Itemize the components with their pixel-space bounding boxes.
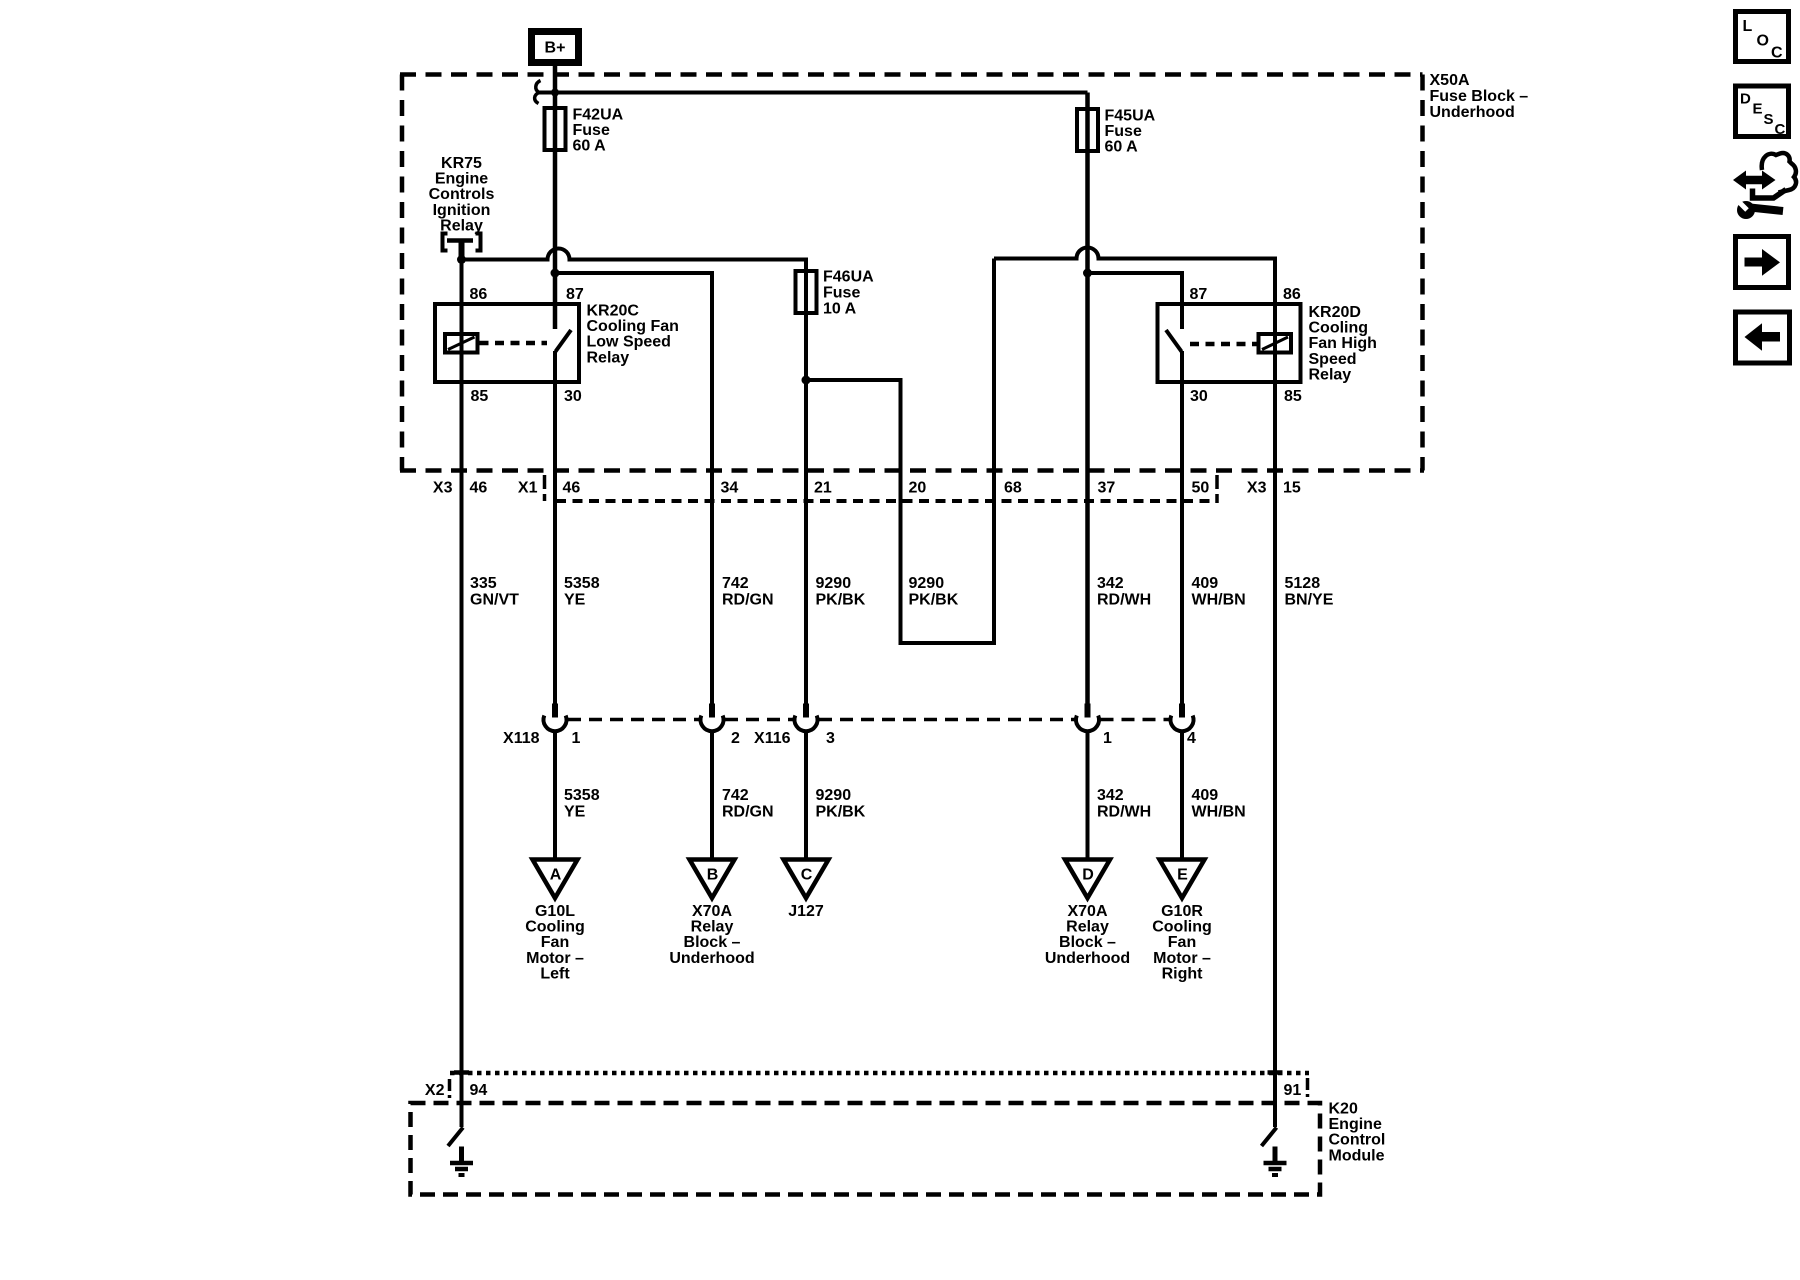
- svg-text:O: O: [1757, 33, 1769, 50]
- svg-text:Cooling Fan: Cooling Fan: [587, 318, 679, 335]
- power feed B+: [532, 32, 579, 63]
- wire B+ vertical feed to F42UA and KR20C 87 (upper): [553, 62, 558, 329]
- junction KR75: [457, 255, 466, 264]
- junction below F46UA: [802, 376, 811, 385]
- svg-text:X1: X1: [518, 480, 538, 497]
- svg-text:X2: X2: [425, 1082, 445, 1099]
- relay KR20D switch blade: [1166, 330, 1182, 352]
- svg-text:30: 30: [564, 388, 582, 405]
- svg-text:Fuse Block –: Fuse Block –: [1430, 88, 1529, 105]
- ground (ECM left): [450, 1147, 473, 1176]
- splice hook at bus left end: [535, 81, 541, 104]
- connector dashed links: [568, 718, 1169, 722]
- svg-text:86: 86: [1283, 286, 1301, 303]
- svg-text:C: C: [1775, 121, 1786, 138]
- icon next arrow button: [1736, 237, 1789, 288]
- svg-text:Left: Left: [540, 965, 570, 982]
- svg-text:Speed: Speed: [1309, 351, 1357, 368]
- svg-text:46: 46: [563, 480, 581, 497]
- icon schematic/tools: [1733, 153, 1796, 219]
- wire F45UA down to connector X116 pin 1: [1085, 93, 1090, 705]
- svg-text:86: 86: [470, 286, 488, 303]
- wire B+ horizontal bus to F45UA: [539, 91, 1088, 95]
- svg-text:Cooling: Cooling: [525, 919, 585, 936]
- svg-text:Relay: Relay: [440, 217, 483, 234]
- relay KR20C box: [435, 304, 579, 382]
- wire value label 9290 PK/BK (21): [816, 575, 866, 609]
- fuse block box X50A (dashed): [400, 75, 1424, 471]
- wire KR20D 85 coil return (5128 BN/YE) down to ECM: [1273, 334, 1277, 1127]
- svg-text:409: 409: [1192, 575, 1219, 592]
- node X50A label: [1430, 72, 1529, 121]
- svg-text:9290: 9290: [909, 575, 945, 592]
- svg-text:X3: X3: [433, 480, 453, 497]
- relay KR75 terminal symbol: [443, 234, 481, 257]
- svg-text:YE: YE: [564, 804, 586, 821]
- node G10L label: [525, 903, 585, 982]
- svg-text:KR75: KR75: [441, 155, 482, 172]
- svg-text:742: 742: [722, 787, 749, 804]
- wire KR20D 30 output (409 WH/BN) down to connector X116 pin 4: [1180, 351, 1184, 704]
- svg-text:KR20D: KR20D: [1309, 304, 1361, 321]
- node X70A label (B): [669, 903, 754, 967]
- svg-text:Underhood: Underhood: [1430, 104, 1515, 121]
- svg-text:91: 91: [1284, 1082, 1302, 1099]
- svg-text:J127: J127: [788, 903, 824, 920]
- connector X1 dashed line: [556, 499, 1216, 503]
- icon LOC button: [1736, 12, 1789, 62]
- relay KR20C label: [587, 303, 679, 367]
- svg-text:409: 409: [1192, 787, 1219, 804]
- ground (ECM right): [1264, 1147, 1287, 1176]
- wire branch to KR20D 87: [1088, 273, 1183, 329]
- svg-text:46: 46: [470, 480, 488, 497]
- wire value label 9290 PK/BK (20-68 loop): [909, 575, 959, 609]
- wire KR20C 85 coil return (335 GN/VT) down to ECM: [460, 260, 464, 1128]
- wire value label 342 RD/WH: [1097, 575, 1151, 609]
- wire value label 5358 YE: [564, 575, 600, 609]
- svg-text:X50A: X50A: [1430, 72, 1470, 89]
- svg-text:F46UA: F46UA: [823, 269, 874, 286]
- svg-text:Control: Control: [1329, 1132, 1386, 1149]
- relay KR20C switch blade: [556, 330, 572, 352]
- svg-text:Motor –: Motor –: [1153, 950, 1211, 967]
- svg-text:Cooling: Cooling: [1152, 919, 1212, 936]
- svg-text:68: 68: [1004, 480, 1022, 497]
- svg-text:342: 342: [1097, 787, 1124, 804]
- junction at B+ bus: [551, 89, 559, 97]
- wire value label 5358 YE (lower): [564, 787, 600, 821]
- connector X1 left tick: [543, 475, 547, 501]
- destination arrow D: [1065, 860, 1110, 899]
- svg-text:WH/BN: WH/BN: [1192, 592, 1246, 609]
- connector X2 tick at pin 94: [454, 1070, 469, 1075]
- svg-text:Engine: Engine: [1329, 1116, 1382, 1133]
- svg-text:PK/BK: PK/BK: [816, 804, 866, 821]
- svg-text:G10L: G10L: [535, 903, 575, 920]
- svg-text:D: D: [1740, 91, 1751, 108]
- svg-text:3: 3: [826, 730, 835, 747]
- wire value label 409 WH/BN: [1192, 575, 1246, 609]
- connector X118 pin 1: [544, 704, 567, 732]
- svg-text:YE: YE: [564, 592, 586, 609]
- svg-text:X70A: X70A: [1067, 903, 1107, 920]
- fuse F42UA: [545, 107, 624, 155]
- node X70A label (D): [1045, 903, 1130, 967]
- connector X1 right tick / X3: [1215, 475, 1219, 503]
- svg-text:21: 21: [814, 480, 832, 497]
- svg-text:87: 87: [566, 286, 584, 303]
- wire 742 RD/GN lower: [710, 730, 714, 860]
- svg-text:50: 50: [1192, 480, 1210, 497]
- svg-text:Relay: Relay: [587, 349, 630, 366]
- wire value label 335 GN/VT: [470, 575, 519, 609]
- svg-text:Fuse: Fuse: [823, 285, 860, 302]
- svg-text:Ignition: Ignition: [433, 202, 491, 219]
- svg-text:D: D: [1082, 867, 1094, 884]
- wire KR20C 30 output (5358 YE) down to connector X118 pin 1: [553, 351, 557, 704]
- junction on B+ wire: [551, 269, 560, 278]
- svg-text:RD/WH: RD/WH: [1097, 804, 1151, 821]
- svg-text:K20: K20: [1329, 1101, 1358, 1118]
- svg-text:PK/BK: PK/BK: [816, 592, 866, 609]
- svg-text:WH/BN: WH/BN: [1192, 804, 1246, 821]
- svg-text:94: 94: [470, 1082, 488, 1099]
- connector X118 pin 2: [701, 704, 724, 732]
- ECM right switch blade: [1262, 1128, 1277, 1147]
- wire terminal 68 to KR20D 86 (hop over F45UA wire): [994, 248, 1275, 335]
- svg-text:5358: 5358: [564, 575, 600, 592]
- ECM left switch blade: [448, 1128, 463, 1147]
- svg-text:F45UA: F45UA: [1105, 108, 1156, 125]
- relay KR20C coil: [445, 334, 478, 353]
- destination arrow A: [533, 860, 578, 899]
- svg-text:A: A: [550, 867, 562, 884]
- svg-text:Underhood: Underhood: [1045, 950, 1130, 967]
- svg-text:L: L: [1743, 18, 1753, 35]
- wire 5358 YE lower: [553, 730, 557, 860]
- svg-text:Underhood: Underhood: [669, 950, 754, 967]
- svg-text:335: 335: [470, 575, 497, 592]
- svg-text:Block –: Block –: [684, 934, 741, 951]
- relay KR20D coil: [1259, 334, 1292, 353]
- connector X2 right tick: [1306, 1078, 1310, 1097]
- wire value label 742 RD/GN (lower): [722, 787, 774, 821]
- svg-text:37: 37: [1098, 480, 1116, 497]
- relay KR20C linkage (dashed): [480, 341, 548, 346]
- svg-text:Block –: Block –: [1059, 934, 1116, 951]
- wire value label 5128 BN/YE: [1285, 575, 1334, 609]
- svg-text:BN/YE: BN/YE: [1285, 592, 1334, 609]
- svg-text:4: 4: [1187, 730, 1196, 747]
- connector X116 pin 4: [1171, 704, 1194, 732]
- svg-text:PK/BK: PK/BK: [909, 592, 959, 609]
- svg-text:X116: X116: [754, 730, 791, 747]
- svg-text:Relay: Relay: [1066, 919, 1109, 936]
- svg-text:Motor –: Motor –: [526, 950, 584, 967]
- svg-text:5128: 5128: [1285, 575, 1321, 592]
- svg-text:9290: 9290: [816, 787, 852, 804]
- svg-text:30: 30: [1190, 388, 1208, 405]
- svg-text:B: B: [707, 867, 719, 884]
- wire value label 342 RD/WH (lower): [1097, 787, 1151, 821]
- svg-text:20: 20: [909, 480, 927, 497]
- fuse F46UA: [796, 269, 875, 318]
- svg-text:87: 87: [1190, 286, 1208, 303]
- svg-text:C: C: [801, 867, 813, 884]
- svg-text:342: 342: [1097, 575, 1124, 592]
- wire value label 9290 PK/BK (lower): [816, 787, 866, 821]
- svg-text:Fan: Fan: [1168, 934, 1196, 951]
- svg-text:1: 1: [1103, 730, 1112, 747]
- svg-text:Module: Module: [1329, 1147, 1385, 1164]
- svg-text:G10R: G10R: [1161, 903, 1203, 920]
- svg-text:RD/GN: RD/GN: [722, 592, 774, 609]
- icon DESC button: [1736, 86, 1789, 138]
- wire 342 RD/WH lower: [1086, 730, 1090, 860]
- wire value label 742 RD/GN: [722, 575, 774, 609]
- svg-text:B+: B+: [545, 40, 566, 57]
- svg-text:Cooling: Cooling: [1309, 320, 1369, 337]
- relay KR20D box: [1158, 304, 1301, 382]
- svg-text:Fuse: Fuse: [1105, 123, 1142, 140]
- svg-text:15: 15: [1283, 480, 1301, 497]
- svg-text:Controls: Controls: [429, 186, 495, 203]
- connector X2 tick at pin 91: [1268, 1070, 1283, 1075]
- svg-text:C: C: [1771, 45, 1783, 62]
- svg-text:9290: 9290: [816, 575, 852, 592]
- svg-text:E: E: [1177, 867, 1188, 884]
- wire 9290 PK/BK lower: [804, 730, 808, 860]
- svg-text:S: S: [1764, 111, 1774, 128]
- wire branch 742 from B+ wire: [555, 273, 712, 704]
- wire 409 WH/BN lower: [1180, 730, 1184, 860]
- svg-text:GN/VT: GN/VT: [470, 592, 519, 609]
- svg-text:10 A: 10 A: [823, 301, 857, 318]
- svg-text:Fuse: Fuse: [573, 122, 610, 139]
- icon back arrow button: [1736, 312, 1790, 363]
- svg-text:Low Speed: Low Speed: [587, 334, 671, 351]
- wire KR75 to F46UA (with hop over B+ wire): [462, 249, 807, 705]
- svg-text:X118: X118: [503, 730, 540, 747]
- svg-text:60 A: 60 A: [1105, 139, 1139, 156]
- svg-text:Engine: Engine: [435, 171, 488, 188]
- svg-text:5358: 5358: [564, 787, 600, 804]
- svg-text:742: 742: [722, 575, 749, 592]
- svg-text:85: 85: [471, 388, 489, 405]
- svg-text:34: 34: [721, 480, 739, 497]
- junction on F45UA wire: [1083, 269, 1092, 278]
- relay KR20D linkage (dashed): [1190, 342, 1259, 347]
- svg-text:E: E: [1753, 101, 1763, 118]
- fuse F45UA: [1077, 108, 1156, 156]
- wire F46UA branch to terminal 20 loop: [806, 259, 994, 644]
- svg-text:60 A: 60 A: [573, 138, 607, 155]
- svg-text:2: 2: [731, 730, 740, 747]
- svg-text:F42UA: F42UA: [573, 107, 624, 124]
- connector X116 pin 3: [795, 704, 818, 732]
- destination arrow E: [1160, 860, 1205, 899]
- svg-text:KR20C: KR20C: [587, 303, 640, 320]
- connector X2 dotted line: [450, 1071, 1309, 1076]
- ECM K20 box (dashed): [411, 1103, 1321, 1195]
- wire value label 409 WH/BN (lower): [1192, 787, 1246, 821]
- connector X116 pin 1: [1076, 704, 1099, 732]
- svg-text:1: 1: [572, 730, 581, 747]
- destination arrow B: [690, 860, 735, 899]
- svg-text:Fan: Fan: [541, 934, 569, 951]
- node G10R label: [1152, 903, 1212, 982]
- node K20 label: [1329, 1101, 1386, 1165]
- svg-text:Right: Right: [1162, 965, 1204, 982]
- relay KR20D label: [1309, 304, 1377, 383]
- svg-text:RD/WH: RD/WH: [1097, 592, 1151, 609]
- svg-text:X3: X3: [1247, 480, 1267, 497]
- connector X2 left tick: [448, 1079, 452, 1098]
- svg-text:RD/GN: RD/GN: [722, 804, 774, 821]
- node KR75 label: [429, 155, 495, 234]
- destination arrow C: [784, 860, 829, 899]
- svg-text:Fan High: Fan High: [1309, 335, 1377, 352]
- svg-text:Relay: Relay: [1309, 366, 1352, 383]
- svg-text:Relay: Relay: [691, 919, 734, 936]
- svg-text:X70A: X70A: [692, 903, 732, 920]
- svg-text:85: 85: [1284, 388, 1302, 405]
